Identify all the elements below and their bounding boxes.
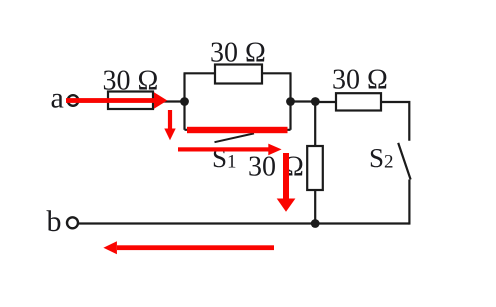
resistor R2 30ohm top branch (215, 65, 262, 84)
svg-text:a: a (51, 82, 64, 115)
red current arrow into a (right) (66, 92, 167, 109)
red thick bar over switch S1 branch (187, 127, 288, 133)
node B junction dot (286, 97, 295, 106)
resistor R3 30ohm (336, 93, 381, 110)
wire right vertical of parallel loop (289, 73, 291, 130)
svg-text:b: b (47, 205, 62, 238)
svg-text:30 Ω: 30 Ω (103, 66, 159, 97)
switch S1 lever (215, 133, 255, 142)
node D junction dot on bottom rail (311, 219, 320, 228)
red current arrow down through R4 (277, 153, 296, 212)
wire R3 to right corner (381, 102, 409, 141)
wire R4 to bottom rail (314, 190, 316, 224)
node C junction dot (311, 97, 320, 106)
terminal b (67, 217, 78, 228)
bottom rail wire b to S2 (79, 222, 410, 224)
wire a to R1 (79, 100, 108, 102)
red current arrow down after R1 (164, 110, 175, 140)
switch S2 lever (398, 143, 410, 180)
resistor R1 30ohm (108, 92, 153, 110)
wire node C to R3 (315, 101, 336, 103)
wire S2 to bottom rail (408, 180, 410, 225)
svg-text:30 Ω: 30 Ω (332, 65, 388, 96)
wire bottom branch with switch S1 (185, 129, 291, 131)
svg-text:30 Ω: 30 Ω (210, 38, 266, 69)
wire top branch left (184, 72, 216, 74)
red current arrow right under S1 (178, 144, 282, 156)
node A junction dot (180, 97, 189, 106)
wire left vertical of parallel loop (183, 73, 185, 130)
svg-text:30 Ω: 30 Ω (248, 152, 304, 183)
wire node B to node C (291, 100, 316, 102)
wire node C down to R4 (314, 102, 316, 147)
wire top branch right (262, 72, 292, 74)
terminal a (68, 95, 79, 106)
wire R1 to node A (153, 100, 185, 102)
red current arrow left on bottom rail (103, 241, 274, 254)
resistor R4 30ohm vertical (307, 146, 323, 190)
